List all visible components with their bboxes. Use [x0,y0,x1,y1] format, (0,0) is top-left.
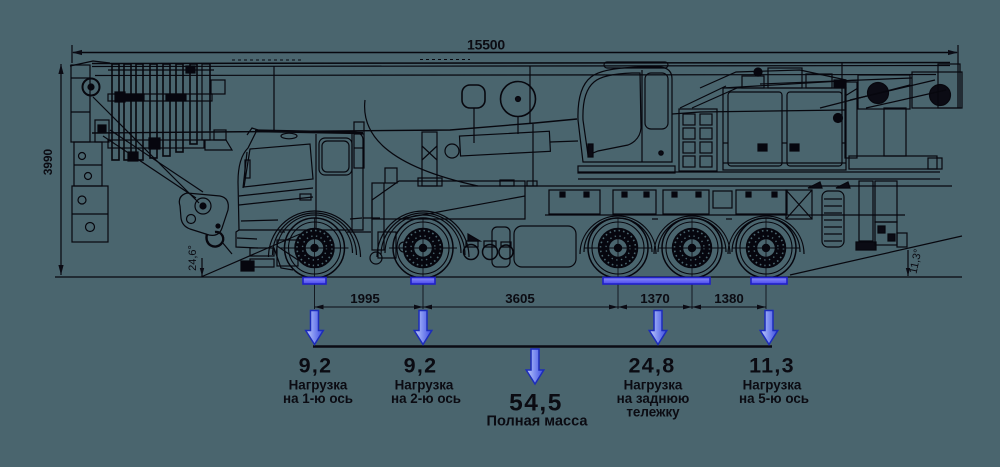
wheel 4 [658,218,726,309]
svg-text:24,8: 24,8 [628,354,675,378]
cable drops from boom sheaves [474,108,533,186]
svg-text:15500: 15500 [467,37,505,53]
svg-text:1380: 1380 [714,291,744,306]
load arrow axle2 [414,311,432,345]
cab lower / bumper and steps [236,218,382,271]
sheave bracket on boom [462,85,485,108]
boom [92,60,950,134]
svg-text:3990: 3990 [41,148,55,175]
total mass arrow [526,349,544,384]
truck cab [238,122,364,230]
load arrow bogie [649,311,667,345]
ground line [55,276,962,278]
wheel 5 [732,218,800,309]
outrigger housing behind cab [372,168,525,258]
svg-text:на 5-ю ось: на 5-ю ось [739,391,809,406]
toolbox panels [500,180,787,214]
hook block [179,193,232,254]
svg-text:Полная масса: Полная масса [486,414,588,430]
svg-text:9,2: 9,2 [404,354,438,378]
dimension 3990 [58,64,63,275]
svg-text:3605: 3605 [505,291,535,306]
svg-text:на 1-ю ось: на 1-ю ось [283,391,353,406]
chassis deck [460,172,952,215]
axle dimension line [315,305,767,310]
blue pad axle 1 [303,278,326,285]
blue pad axle 5 [751,278,787,285]
rear fenders [580,216,804,254]
approach angle line 24.6 [200,234,300,277]
boom head assembly [70,61,110,242]
hydraulic hose under boom [365,100,478,186]
stowed jib slats on boom head [108,64,232,161]
crane cab [578,62,675,173]
support rollers [464,234,514,260]
svg-text:1995: 1995 [350,291,380,306]
rear equipment [786,181,907,250]
svg-text:на 2-ю ось: на 2-ю ось [391,391,461,406]
summary load line [313,345,772,348]
fuel tank [492,226,576,267]
load arrow axle1 [306,311,324,345]
blue pad axle 2 [411,278,435,285]
svg-text:24,6°: 24,6° [187,245,199,271]
front fender wheel1 [269,211,361,257]
hook pendant strut [93,97,203,203]
svg-text:9,2: 9,2 [299,354,333,378]
load arrow axle5 [760,311,778,345]
ladder behind crane cab [679,86,737,171]
boom rest tower [418,132,442,186]
lift cylinder [445,131,578,158]
winch assembly [723,64,962,169]
wheel 2 [389,218,457,309]
front fender wheel2 [377,211,469,257]
wheel 3 [584,218,652,309]
blue pad rear bogie [603,278,710,285]
svg-text:1370: 1370 [640,291,670,306]
machinery house [700,68,846,170]
svg-text:11,3: 11,3 [749,354,795,378]
svg-text:54,5: 54,5 [509,390,563,417]
svg-text:тележку: тележку [626,405,680,420]
boom sheave circle [501,82,536,117]
departure angle line 11.3 [790,236,962,276]
dimension 15500 [72,45,958,108]
wheel 1 [281,218,349,309]
